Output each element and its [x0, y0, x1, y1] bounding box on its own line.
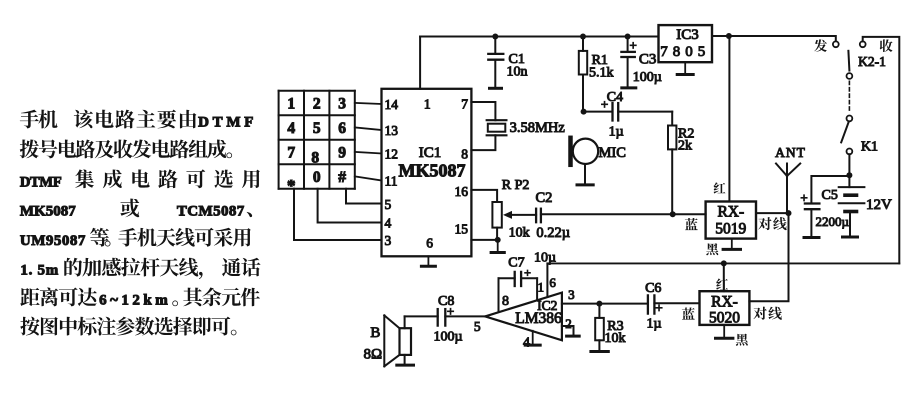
wire IC3 output to K2-1 contact	[712, 36, 836, 41]
label blue RX-5019	[685, 218, 698, 230]
antenna ANT	[775, 145, 806, 213]
battery 12V	[839, 187, 892, 237]
svg-text:C6: C6	[645, 281, 661, 296]
svg-text:1. 5m: 1. 5m	[20, 263, 59, 279]
svg-text:14: 14	[385, 97, 399, 112]
capacitor C2 0.22u	[536, 190, 571, 241]
svg-text:+: +	[655, 300, 662, 315]
svg-text:R P2: R P2	[502, 178, 530, 193]
svg-text:2: 2	[565, 316, 572, 331]
svg-text:+: +	[630, 38, 637, 53]
regulator IC3 7805	[659, 25, 713, 62]
wire antenna node to RX-5020 duixian	[749, 213, 788, 301]
svg-text:8: 8	[502, 294, 509, 309]
svg-text:0.22µ: 0.22µ	[536, 225, 570, 241]
node MIC-C4-R1	[581, 109, 587, 115]
wire receive power rail	[547, 262, 899, 264]
svg-text:5: 5	[385, 197, 392, 212]
svg-text:MK5087: MK5087	[20, 204, 76, 220]
svg-text:MK5087: MK5087	[399, 161, 466, 181]
label black RX-5020	[736, 334, 748, 346]
wire RX-5019 red to +12V switched	[728, 36, 730, 202]
keypad 4x3 matrix	[279, 91, 355, 195]
ground RX-5020 black	[716, 325, 733, 338]
wire keypad col3 (#) to IC1 pin 5	[346, 189, 382, 204]
wire K1 to battery	[848, 154, 850, 187]
capacitor C6 1u	[645, 281, 699, 332]
microphone MIC	[571, 138, 626, 185]
svg-text:3: 3	[385, 233, 392, 248]
resistor R2 2k	[668, 112, 694, 215]
svg-text:15: 15	[455, 221, 469, 236]
node antenna junction	[786, 210, 792, 216]
node RX-5019 power tap	[726, 33, 732, 39]
op IC1 MK5087 DTMF dialer	[382, 89, 472, 256]
svg-text:RX-: RX-	[717, 204, 744, 221]
module RX-5019 transmitter	[706, 202, 756, 239]
node R3 top	[596, 301, 602, 307]
svg-text:3.58MHz: 3.58MHz	[510, 120, 566, 136]
label duixian RX-5020	[753, 307, 781, 320]
contact K1 top	[847, 116, 853, 122]
descriptive text paragraph	[20, 110, 261, 336]
node RX-5020 power tap	[721, 260, 727, 266]
svg-text:0: 0	[313, 169, 321, 186]
label K1	[861, 140, 878, 155]
svg-text:7805: 7805	[660, 44, 710, 60]
svg-text:DTMF: DTMF	[198, 115, 257, 131]
contact K1 bottom	[847, 149, 853, 155]
svg-text:5.1k: 5.1k	[589, 66, 614, 81]
ground under RP2	[491, 240, 504, 253]
svg-text:5019: 5019	[715, 221, 746, 238]
svg-text:6: 6	[426, 236, 433, 251]
node C1 tap	[492, 34, 498, 40]
capacitor C4 1u	[584, 90, 673, 140]
svg-text:1: 1	[538, 280, 545, 295]
node C3 tap	[625, 34, 631, 40]
svg-text:9: 9	[338, 144, 346, 161]
svg-text:K1: K1	[861, 140, 878, 155]
capacitor C1 10n	[488, 37, 527, 89]
wire keypad col2 (0) to IC1 pin 4	[318, 189, 382, 223]
svg-text:B: B	[370, 325, 380, 341]
wire +V top rail	[420, 36, 658, 38]
svg-text:8: 8	[311, 149, 319, 166]
svg-text:11: 11	[385, 173, 398, 188]
label pin 3	[568, 287, 575, 302]
svg-text:10k: 10k	[509, 226, 530, 241]
svg-text:2200µ: 2200µ	[816, 214, 850, 229]
node R2 bottom junction	[670, 211, 676, 217]
label blue RX-5020	[682, 307, 695, 319]
svg-text:5: 5	[474, 319, 481, 334]
label pin 5	[474, 319, 481, 334]
label black RX-5019	[706, 243, 718, 255]
label fa (transmit)	[814, 39, 827, 52]
ground under IC3	[677, 62, 693, 74]
svg-text:5: 5	[313, 120, 321, 137]
svg-text:8: 8	[461, 147, 468, 162]
capacitor C7 10u between pins 1 and 8	[499, 251, 557, 312]
wire pin 5 output to C8	[445, 315, 485, 317]
pin 4 to ground	[523, 331, 540, 351]
svg-text:RX-: RX-	[711, 294, 738, 311]
svg-text:16: 16	[455, 184, 469, 199]
capacitor C8 100u	[405, 294, 463, 345]
svg-text:5020: 5020	[709, 310, 740, 327]
svg-text:100µ: 100µ	[633, 70, 662, 85]
wire RX-5020 red to rail	[723, 263, 725, 291]
speaker B 8ohm	[363, 315, 413, 366]
svg-text:IC1: IC1	[419, 145, 442, 161]
svg-text:10µ: 10µ	[534, 251, 556, 266]
svg-text:2: 2	[313, 96, 321, 113]
svg-text:12: 12	[385, 146, 399, 161]
svg-text:C7: C7	[508, 256, 524, 271]
contact K2-1 shou	[860, 41, 866, 47]
resistor R1 5.1k	[579, 37, 614, 112]
svg-text:3: 3	[568, 287, 575, 302]
svg-text:3: 3	[338, 96, 346, 113]
label pin 6	[549, 275, 556, 290]
svg-text:MIC: MIC	[599, 145, 626, 161]
svg-text:C3: C3	[639, 52, 657, 68]
switch K1 blade	[841, 123, 848, 143]
svg-text:C5: C5	[822, 188, 838, 203]
svg-text:6: 6	[338, 120, 346, 137]
wire pin 3 output	[562, 303, 648, 305]
svg-text:100µ: 100µ	[434, 330, 463, 345]
label red RX-5020	[716, 278, 728, 289]
svg-text:UM95087: UM95087	[20, 233, 86, 249]
svg-text:1: 1	[287, 96, 295, 113]
ground under IC1 pin 6	[421, 256, 435, 266]
svg-text:C2: C2	[536, 190, 553, 206]
wire top rail to IC1 pin 1	[419, 37, 421, 89]
svg-text:10k: 10k	[605, 331, 626, 346]
svg-text:4: 4	[385, 215, 392, 230]
wire RX-5019 to antenna node	[756, 212, 789, 214]
wire keypad col1 (*) to IC1 pin 3	[294, 189, 382, 240]
crystal 3.58MHz between IC1 pins 7 and 8	[471, 102, 565, 150]
svg-text:ANT: ANT	[775, 145, 806, 160]
svg-text:12V: 12V	[866, 197, 892, 213]
capacitor C3 100u	[621, 37, 661, 88]
wire pin 6 to receive rail	[546, 263, 548, 297]
ground RX-5019 black	[723, 239, 740, 250]
potentiometer RP2 10k	[471, 178, 536, 241]
node R1 tap	[580, 34, 586, 40]
svg-text:K2-1: K2-1	[858, 54, 886, 69]
capacitor C5 2200u	[800, 176, 849, 238]
svg-text:C4: C4	[607, 90, 623, 105]
svg-text:2k: 2k	[678, 139, 692, 154]
svg-text:13: 13	[385, 123, 399, 138]
module RX-5020 receiver	[700, 291, 750, 326]
svg-text:7: 7	[461, 96, 468, 111]
svg-text:10n: 10n	[507, 65, 528, 80]
svg-text:7: 7	[287, 144, 295, 161]
svg-text:8Ω: 8Ω	[363, 347, 382, 363]
pin 2 to ground	[562, 316, 579, 336]
svg-text:6~12km: 6~12km	[99, 293, 171, 309]
svg-text:1: 1	[424, 96, 431, 111]
wire pin15 to RP2 bottom	[471, 239, 497, 241]
svg-text:1µ: 1µ	[609, 125, 624, 140]
switch K2-1 blade	[848, 51, 849, 71]
svg-text:4: 4	[287, 120, 295, 137]
svg-text:#: #	[338, 169, 346, 186]
label K2-1	[858, 54, 886, 69]
label red RX-5019	[714, 182, 726, 193]
svg-text:1µ: 1µ	[647, 317, 662, 332]
label duixian RX-5019	[758, 217, 786, 230]
contact K2-1 fa	[833, 41, 839, 47]
node battery top	[846, 172, 852, 178]
mechanical link K2-K1	[848, 81, 850, 112]
svg-text:TCM5087: TCM5087	[177, 204, 245, 220]
svg-text:6: 6	[549, 275, 556, 290]
svg-text:IC3: IC3	[676, 27, 699, 43]
svg-text:C8: C8	[438, 294, 454, 309]
wires keypad rows to IC1 pins 14,13,12,11	[355, 103, 382, 181]
wire shou contact to right rail	[863, 37, 900, 264]
svg-text:DTMF: DTMF	[20, 174, 62, 190]
node RP2 bottom	[495, 237, 501, 243]
label shou (receive)	[880, 39, 893, 52]
svg-text:LM386: LM386	[515, 310, 562, 327]
svg-text:4: 4	[523, 336, 530, 351]
op-amp IC2 LM386	[485, 293, 562, 341]
wire C2 to RX-5019 blue	[541, 213, 706, 215]
resistor R3 10k	[591, 304, 626, 352]
contact K2-1 pole	[847, 73, 853, 79]
